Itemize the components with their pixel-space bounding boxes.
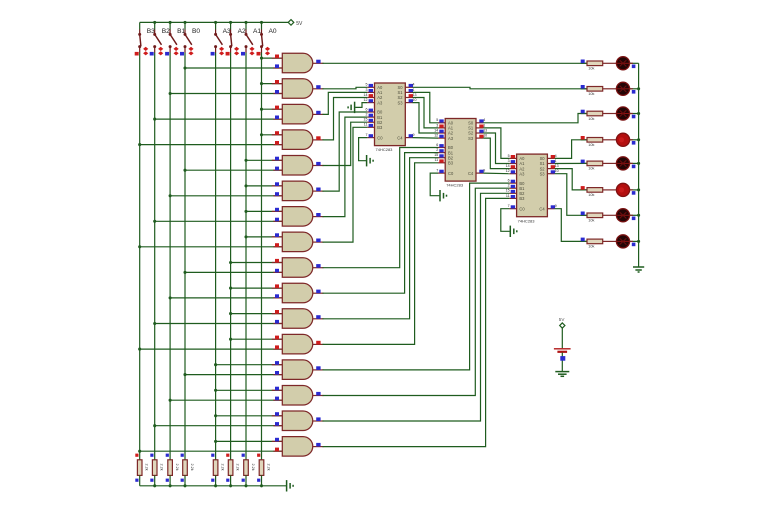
power terminal 5V battery: [560, 323, 565, 328]
junction LED bus: [637, 162, 640, 165]
AND gate G8: [282, 232, 312, 252]
junction rail-A2: [229, 21, 232, 24]
toggle arrows B2: [158, 47, 163, 51]
svg-text:9: 9: [413, 133, 415, 137]
wire LED D8 to bus: [630, 240, 639, 242]
output indicator: [316, 136, 320, 140]
U1 pin B3: [367, 126, 374, 128]
indicator R7 bottom: [242, 479, 245, 482]
svg-text:6: 6: [508, 179, 510, 183]
switch B3: [139, 30, 141, 35]
svg-text:74HC283: 74HC283: [376, 147, 394, 152]
input indicators G7: [275, 208, 279, 212]
wire IC2 S0 to R row3: [483, 114, 587, 123]
svg-text:5V: 5V: [559, 317, 566, 322]
resistor R1 2.2k: [137, 460, 142, 476]
AND gate G3: [282, 104, 312, 124]
wire gate G13 output: [323, 183, 510, 370]
wire gate G12 output: [323, 163, 439, 345]
svg-text:B0: B0: [192, 28, 200, 35]
wire B1 line to gate G6: [170, 195, 282, 197]
wire gate G15 output: [323, 193, 510, 421]
svg-text:14: 14: [364, 93, 368, 97]
svg-text:7: 7: [366, 133, 368, 137]
wire A2 stub to gate G9: [231, 262, 283, 264]
resistor R3 2.2k: [168, 460, 173, 476]
input indicators G10: [275, 284, 279, 288]
wire gate G10 output: [323, 153, 439, 294]
U3 pin A1: [509, 163, 516, 165]
switch A2: [230, 30, 232, 35]
svg-text:11: 11: [364, 123, 368, 127]
svg-text:7: 7: [508, 204, 510, 208]
U1 pin A0: [367, 86, 374, 88]
resistor R2 2.2k: [152, 460, 157, 476]
wire A0 stub to gate G1: [262, 57, 283, 59]
wire A1 rail stub: [245, 22, 247, 29]
input indicators G8: [275, 233, 279, 237]
input indicators G12: [275, 336, 279, 340]
wire column B0: [184, 53, 186, 460]
U3 pin S1: [547, 163, 554, 165]
svg-text:C0: C0: [519, 206, 525, 211]
svg-text:C4: C4: [539, 206, 545, 211]
ground battery: [555, 371, 569, 373]
indicator battery: [560, 356, 565, 361]
indicator R2 top: [150, 454, 153, 457]
AND gate G10: [282, 283, 313, 303]
indicator R16: [581, 238, 585, 242]
wire pulldown ground rail: [140, 485, 286, 487]
resistor R4 2.2k: [183, 460, 188, 476]
output indicator: [316, 85, 320, 89]
wire A1 stub to gate G7: [246, 210, 282, 212]
output indicator: [316, 239, 320, 243]
wire B1 line to gate G14: [170, 399, 282, 401]
svg-text:12: 12: [434, 134, 438, 138]
wire A1 stub to gate G5: [246, 159, 282, 161]
U3 pin C4: [547, 208, 554, 210]
wire IC2 S1 to IC3 A0: [483, 128, 509, 158]
output indicator: [316, 366, 320, 370]
svg-text:A3: A3: [448, 136, 454, 141]
input indicators G13: [275, 361, 279, 365]
wire gate G11 output: [323, 158, 439, 319]
LED D7: [616, 209, 629, 222]
svg-text:74HC283: 74HC283: [518, 218, 536, 223]
U2 pin B0: [438, 147, 445, 149]
input indicators G4: [275, 131, 279, 135]
U1 pin A3: [367, 102, 374, 104]
svg-text:10k: 10k: [588, 117, 594, 121]
switch B2: [154, 30, 156, 35]
input indicators G6: [275, 182, 279, 186]
U2 pin A0: [438, 122, 445, 124]
wire B1 rail stub: [169, 22, 171, 29]
AND gate G16: [282, 437, 312, 457]
svg-text:10k: 10k: [588, 92, 594, 96]
U1 pin S2: [405, 97, 412, 99]
junction LED bus: [637, 214, 640, 217]
AND gate G9: [282, 258, 312, 278]
svg-text:10k: 10k: [588, 219, 594, 223]
wire B2 line to gate G15: [155, 425, 283, 427]
indicator R6 bottom: [226, 479, 229, 482]
svg-text:2: 2: [436, 148, 438, 152]
svg-text:A3: A3: [519, 171, 525, 176]
resistor R15 10k: [581, 214, 587, 216]
AND gate G14: [282, 386, 312, 406]
wire gate G3 output: [323, 92, 368, 114]
U2 pin B1: [438, 152, 445, 154]
wire IC3 C4 to R row8: [555, 209, 587, 242]
wire B0 line to gate G1: [185, 67, 282, 69]
resistor R14 10k: [581, 189, 587, 191]
svg-text:2.2k: 2.2k: [145, 464, 149, 471]
svg-text:15: 15: [434, 153, 438, 157]
wire IC1 S2 to IC2 A1: [413, 98, 439, 128]
output indicator: [316, 392, 320, 396]
svg-text:13: 13: [555, 164, 559, 168]
U2 pin S1: [476, 127, 483, 129]
wire column A1: [245, 53, 247, 460]
wire IC2 C4 to IC3 A3: [483, 172, 509, 175]
wire column B3: [139, 53, 141, 460]
svg-text:C4: C4: [468, 171, 474, 176]
indicator R15: [581, 212, 585, 216]
junction pulldown rail: [183, 484, 186, 487]
wire B3 line to gate G4: [140, 144, 283, 146]
ground LED bus: [633, 266, 644, 268]
junction pulldown rail: [260, 484, 263, 487]
AND gate G13: [282, 360, 312, 380]
ground IC1 A3: [354, 102, 356, 113]
LED D3: [616, 107, 629, 120]
resistor R5 2.2k: [213, 460, 218, 476]
AND gate G4: [282, 130, 312, 150]
wire gate G8 output: [323, 127, 368, 242]
LED D1: [616, 57, 629, 70]
U3 pin S3: [547, 173, 554, 175]
wire gate G7 output: [323, 117, 368, 217]
svg-text:2: 2: [508, 184, 510, 188]
wire column A2: [230, 53, 232, 460]
wire B3 line to gate G8: [140, 246, 283, 248]
indicator R6 top: [226, 454, 229, 457]
U1 pin B1: [367, 116, 374, 118]
wire A3 stub to gate G16: [216, 440, 283, 442]
svg-text:5V: 5V: [296, 21, 303, 27]
toggle arrows B1: [174, 47, 179, 51]
U3 pin A3: [509, 173, 516, 175]
wire gate G16 output: [323, 198, 510, 446]
logic indicator A3: [211, 52, 215, 56]
svg-text:11: 11: [506, 194, 510, 198]
wire A2 stub to gate G12: [231, 338, 283, 340]
svg-text:14: 14: [434, 128, 438, 132]
svg-text:2.2k: 2.2k: [236, 464, 240, 471]
wire IC1 C0 to ground: [359, 138, 368, 161]
U3 pin A0: [509, 157, 516, 159]
U2 pin B3: [438, 162, 445, 164]
resistor R11 10k: [581, 113, 587, 115]
indicator R4 bottom: [181, 479, 184, 482]
indicator LED D8: [632, 243, 636, 247]
svg-text:3: 3: [366, 88, 368, 92]
svg-text:10k: 10k: [588, 67, 594, 71]
AND gate G5: [282, 156, 312, 176]
wire IC3 S2 to R row6: [555, 169, 587, 190]
indicator R8 top: [257, 454, 260, 457]
input indicators G2: [275, 80, 279, 84]
U1 pin A2: [367, 97, 374, 99]
wire B2 line to gate G3: [155, 118, 283, 120]
wire B3 line to gate G16: [140, 450, 283, 452]
LED D4: [616, 133, 629, 146]
indicator LED D2: [632, 90, 636, 94]
wire gate G6 output: [323, 112, 368, 191]
svg-text:5: 5: [436, 118, 438, 122]
junction pulldown rail: [229, 484, 232, 487]
svg-text:9: 9: [483, 169, 485, 173]
resistor R12 10k: [581, 139, 587, 141]
junction LED bus: [637, 138, 640, 141]
wire LED D5 to bus: [630, 162, 639, 164]
wire column B2: [154, 53, 156, 460]
svg-text:2.2k: 2.2k: [160, 464, 164, 471]
svg-text:B3: B3: [377, 125, 383, 130]
wire LED D1 to bus: [630, 62, 639, 64]
svg-text:6: 6: [366, 107, 368, 111]
indicator R7 top: [242, 454, 245, 457]
svg-text:2: 2: [366, 113, 368, 117]
U1 pin S1: [405, 91, 412, 93]
toggle arrows A2: [234, 47, 239, 51]
AND gate G12: [282, 334, 312, 354]
wire IC3 S0 to R row4: [555, 140, 587, 159]
svg-text:S3: S3: [540, 171, 546, 176]
U3 pin B1: [509, 187, 516, 189]
toggle arrows A3: [219, 47, 224, 51]
svg-text:14: 14: [506, 164, 510, 168]
svg-text:2.2k: 2.2k: [266, 464, 270, 471]
wire battery bottom: [561, 353, 563, 372]
switch A0: [261, 30, 263, 35]
AND gate G7: [282, 207, 312, 227]
toggle arrows A0: [265, 47, 270, 51]
wire IC1 S3 to IC2 A2: [413, 103, 439, 133]
U3 pin B3: [509, 197, 516, 199]
logic indicator B0: [180, 52, 184, 56]
svg-text:3: 3: [508, 159, 510, 163]
wire IC2 S3 to IC3 A2: [483, 138, 509, 169]
U1 pin S3: [405, 102, 412, 104]
wire A3 stub to gate G15: [216, 415, 283, 417]
indicator R5 bottom: [211, 479, 214, 482]
toggle arrows B3: [143, 47, 148, 51]
svg-text:13: 13: [413, 93, 417, 97]
wire B1 line to gate G10: [170, 297, 282, 299]
wire column A3: [215, 53, 217, 460]
wire IC3 C0 to ground: [501, 209, 510, 232]
svg-text:12: 12: [364, 98, 368, 102]
U2 pin B2: [438, 157, 445, 159]
svg-text:11: 11: [434, 158, 438, 162]
U2 pin S2: [476, 132, 483, 134]
junction rail-A1: [244, 21, 247, 24]
input indicators G1: [275, 55, 279, 59]
wire A1 stub to gate G8: [246, 236, 282, 238]
wire LED D7 to bus: [630, 214, 639, 216]
indicator R13: [581, 160, 585, 164]
resistor R8 2.2k: [259, 460, 264, 476]
svg-text:1: 1: [483, 123, 485, 127]
indicator R8 bottom: [257, 479, 260, 482]
svg-text:B3: B3: [519, 196, 525, 201]
U1 pin S0: [405, 86, 412, 88]
input indicators G5: [275, 157, 279, 161]
wire A0 rail stub: [261, 22, 263, 29]
power terminal 5V: [288, 20, 294, 26]
wire A3 stub to gate G14: [216, 389, 283, 391]
resistor R13 10k: [581, 162, 587, 164]
indicator R14: [581, 186, 585, 190]
svg-text:1: 1: [555, 159, 557, 163]
U1 pin B0: [367, 111, 374, 113]
svg-text:7: 7: [436, 169, 438, 173]
indicator R4 top: [181, 454, 184, 457]
svg-text:5: 5: [508, 154, 510, 158]
logic indicator A0: [257, 52, 261, 56]
input indicators G15: [275, 412, 279, 416]
U2 pin A2: [438, 132, 445, 134]
svg-text:C0: C0: [377, 135, 383, 140]
wire column A0: [261, 53, 263, 460]
indicator R2 bottom: [150, 479, 153, 482]
svg-text:10k: 10k: [588, 167, 594, 171]
battery cell B1: [554, 348, 571, 350]
wire IC1 C4 to IC2 A3: [413, 137, 439, 140]
resistor R7 2.2k: [244, 460, 249, 476]
indicator R3 bottom: [166, 479, 169, 482]
wire A1 stub to gate G6: [246, 185, 282, 187]
op-amp-free IC U1 74HC283 body: [375, 83, 406, 146]
wire A3 rail stub: [215, 22, 217, 29]
wire A2 stub to gate G10: [231, 287, 283, 289]
wire gate G9 output: [323, 148, 439, 268]
wire A0 stub to gate G4: [262, 134, 283, 136]
junction LED bus: [637, 87, 640, 90]
wire B3 line to gate G12: [140, 348, 283, 350]
indicator LED D3: [632, 115, 636, 119]
wire IC1 S1 to IC2 A0: [413, 92, 439, 122]
wire LED D4 to bus: [630, 139, 639, 141]
input indicators G11: [275, 310, 279, 314]
indicator LED D5: [632, 165, 636, 169]
resistor R10 10k: [581, 88, 587, 90]
wire gate G5 output: [323, 122, 368, 165]
toggle arrows B0: [188, 47, 193, 51]
indicator R10: [581, 85, 585, 89]
junction rail-B0: [183, 21, 186, 24]
indicator R5 top: [211, 454, 214, 457]
LED D6: [616, 183, 629, 196]
wire LED D2 to bus: [630, 88, 639, 90]
junction rail-B1: [169, 21, 172, 24]
junction LED bus: [637, 240, 640, 243]
wire LED D3 to bus: [630, 113, 639, 115]
svg-text:2.2k: 2.2k: [251, 464, 255, 471]
wire gate G4 output: [323, 98, 368, 140]
switch A1: [245, 30, 247, 35]
wire battery top: [561, 328, 563, 348]
LED D8: [616, 235, 629, 248]
indicator R1 bottom: [135, 479, 138, 482]
U1 pin C0: [367, 137, 374, 139]
svg-text:15: 15: [506, 189, 510, 193]
U3 pin C0: [509, 208, 516, 210]
U3 pin S2: [547, 168, 554, 170]
svg-text:10: 10: [483, 134, 487, 138]
junction pulldown rail: [153, 484, 156, 487]
indicator LED D6: [632, 191, 636, 195]
junction rail-A0: [260, 21, 263, 24]
ground IC2 C0: [439, 190, 441, 201]
indicator R3 top: [166, 454, 169, 457]
svg-text:10k: 10k: [588, 245, 594, 249]
svg-text:C4: C4: [397, 135, 403, 140]
U2 pin S0: [476, 122, 483, 124]
svg-text:9: 9: [555, 204, 557, 208]
wire gate G14 output: [323, 188, 510, 395]
AND gate G11: [282, 309, 312, 329]
svg-text:10: 10: [555, 169, 559, 173]
wire B3 rail stub: [139, 22, 141, 29]
svg-text:A0: A0: [269, 28, 277, 35]
svg-text:4: 4: [483, 118, 485, 122]
wire gate G1 output: [323, 62, 588, 64]
resistor R9 10k: [581, 62, 587, 64]
ground IC1 C0: [366, 155, 368, 166]
svg-text:10k: 10k: [588, 193, 594, 197]
wire LED cathode bus: [638, 63, 640, 266]
svg-text:S3: S3: [468, 136, 474, 141]
svg-text:B3: B3: [448, 161, 454, 166]
svg-text:10: 10: [413, 98, 417, 102]
output indicator: [316, 443, 320, 447]
U1 pin B2: [367, 121, 374, 123]
svg-text:4: 4: [555, 154, 557, 158]
output indicator: [316, 341, 320, 345]
U3 pin B2: [509, 192, 516, 194]
LED D2: [616, 82, 629, 95]
wire column B1: [169, 53, 171, 460]
indicator R1 top: [135, 454, 138, 457]
svg-text:1: 1: [413, 88, 415, 92]
junction LED bus: [637, 112, 640, 115]
svg-text:2.2k: 2.2k: [190, 464, 194, 471]
svg-text:6: 6: [436, 143, 438, 147]
wire A0 stub to gate G2: [262, 83, 283, 85]
junction LED bus: [637, 188, 640, 191]
AND gate G15: [282, 411, 312, 431]
ground IC3 C0: [509, 226, 511, 237]
svg-text:S3: S3: [397, 100, 403, 105]
svg-text:A3: A3: [377, 100, 383, 105]
wire B2 line to gate G7: [155, 220, 283, 222]
wire A0 stub to gate G3: [262, 108, 283, 110]
wire B2 rail stub: [154, 22, 156, 29]
